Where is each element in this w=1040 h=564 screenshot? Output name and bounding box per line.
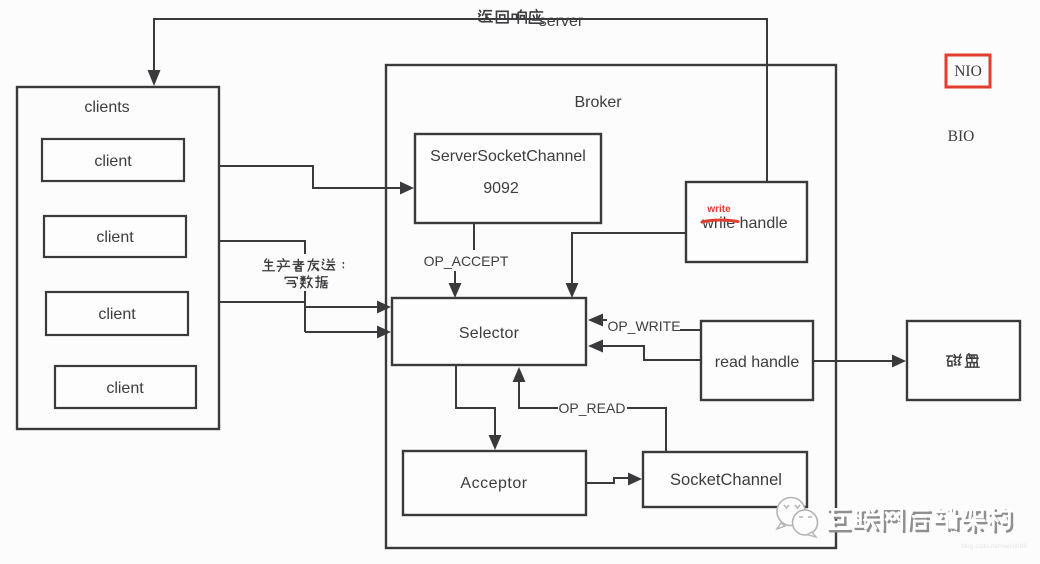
wire client1 to ServerSocketChannel [219, 166, 402, 188]
label client 2 [96, 229, 134, 246]
wire clients to selector upper branch [219, 241, 379, 332]
svg-text:SocketChannel: SocketChannel [670, 471, 782, 489]
svg-text:clients: clients [84, 99, 129, 116]
box clients [17, 87, 219, 429]
box ServerSocketChannel [415, 134, 601, 223]
label client 3 [98, 306, 136, 323]
svg-text:Selector: Selector [459, 325, 520, 342]
svg-text:client: client [98, 306, 136, 323]
wire read handle lower to Selector [603, 346, 701, 360]
svg-text:client: client [94, 153, 132, 170]
svg-text:Broker: Broker [574, 94, 622, 111]
wechat icon big bubble [777, 498, 805, 530]
label server (struck by line) [539, 13, 584, 30]
watermark white text 互联网后端架构 [828, 508, 1010, 531]
wire OP_READ from SocketChannel to Selector [519, 380, 666, 452]
label 磁盘 (disk) [947, 354, 980, 368]
svg-text:client: client [96, 229, 134, 246]
svg-text:NIO: NIO [954, 63, 982, 80]
box write handle [686, 182, 807, 262]
wire feedback top (write handle to clients) [154, 19, 767, 182]
svg-text:OP_WRITE: OP_WRITE [607, 318, 680, 334]
box Broker [386, 65, 836, 548]
box read handle [701, 321, 813, 400]
wire Acceptor to SocketChannel [586, 478, 630, 483]
label 9092 [483, 180, 519, 197]
svg-text:OP_READ: OP_READ [559, 400, 626, 416]
arrowhead right into Selector y332 [377, 326, 391, 339]
label BIO [948, 128, 975, 145]
arrowhead left into Selector right (lower) [588, 340, 603, 353]
box Acceptor [403, 451, 586, 515]
svg-text:wrile handle: wrile handle [701, 215, 787, 232]
arrowhead down into Selector top (OP_ACCEPT) [449, 283, 462, 298]
svg-text:Acceptor: Acceptor [460, 475, 527, 492]
arrowhead down into clients [148, 70, 161, 86]
svg-text:ServerSocketChannel: ServerSocketChannel [430, 148, 586, 165]
label client 4 [106, 380, 144, 397]
svg-text:9092: 9092 [483, 180, 519, 197]
label SocketChannel [670, 471, 782, 489]
label ServerSocketChannel [430, 148, 586, 165]
svg-text:BIO: BIO [948, 128, 975, 145]
box client 4 [55, 366, 196, 408]
label wrile handle (with correction) [701, 215, 787, 232]
watermark shadow 互联网后端架构 [830, 510, 1012, 533]
arrowhead up into Selector bottom (OP_READ) [513, 367, 526, 382]
svg-text:client: client [106, 380, 144, 397]
svg-text:read handle: read handle [715, 354, 800, 371]
red correction write [706, 204, 731, 215]
wire read handle to disk [813, 360, 893, 362]
svg-text:blog.csdn.net/weixin88: blog.csdn.net/weixin88 [961, 543, 1027, 550]
arrowhead right into ServerSocketChannel [400, 182, 414, 195]
label 生产者发送： (producer sends) [258, 254, 350, 291]
arrowhead left into Selector right (OP_WRITE) [588, 314, 603, 327]
second line 写数据 (write data) [285, 277, 297, 287]
svg-text:write: write [706, 204, 731, 215]
svg-text:OP_ACCEPT: OP_ACCEPT [424, 253, 509, 269]
label OP_WRITE [607, 318, 680, 334]
box disk [907, 321, 1020, 400]
wire OP_ACCEPT stub from ServerSocketChannel [455, 224, 474, 285]
label OP_ACCEPT [424, 253, 509, 269]
faint url watermark [961, 543, 1027, 550]
label Acceptor [460, 475, 527, 492]
label 返回响应 (return response) [478, 10, 543, 24]
box client 1 [42, 139, 184, 181]
red strikethrough on wrile [702, 220, 738, 222]
arrowhead down into Selector top (from write handle) [566, 283, 579, 298]
arrowhead right into disk [892, 355, 906, 368]
svg-text:server: server [539, 13, 584, 30]
label client 1 [94, 153, 132, 170]
label read handle [715, 354, 800, 371]
label Broker [574, 94, 622, 111]
box client 2 [44, 216, 186, 257]
wire Selector to Acceptor [456, 366, 495, 437]
wechat icon small bubble [793, 510, 818, 537]
label OP_READ [559, 400, 626, 416]
box SocketChannel [643, 452, 807, 507]
wire OP_WRITE from read handle [603, 320, 701, 330]
arrowhead down into Acceptor [489, 435, 502, 450]
wire write handle to Selector top [572, 233, 686, 285]
box Selector [392, 298, 586, 365]
label NIO [954, 63, 982, 80]
arrowhead right into Selector y307 [377, 301, 391, 314]
box NIO red [946, 55, 990, 87]
label Selector [459, 325, 520, 342]
label clients [84, 99, 129, 116]
box client 3 [46, 292, 188, 335]
arrowhead right into SocketChannel [628, 473, 642, 486]
